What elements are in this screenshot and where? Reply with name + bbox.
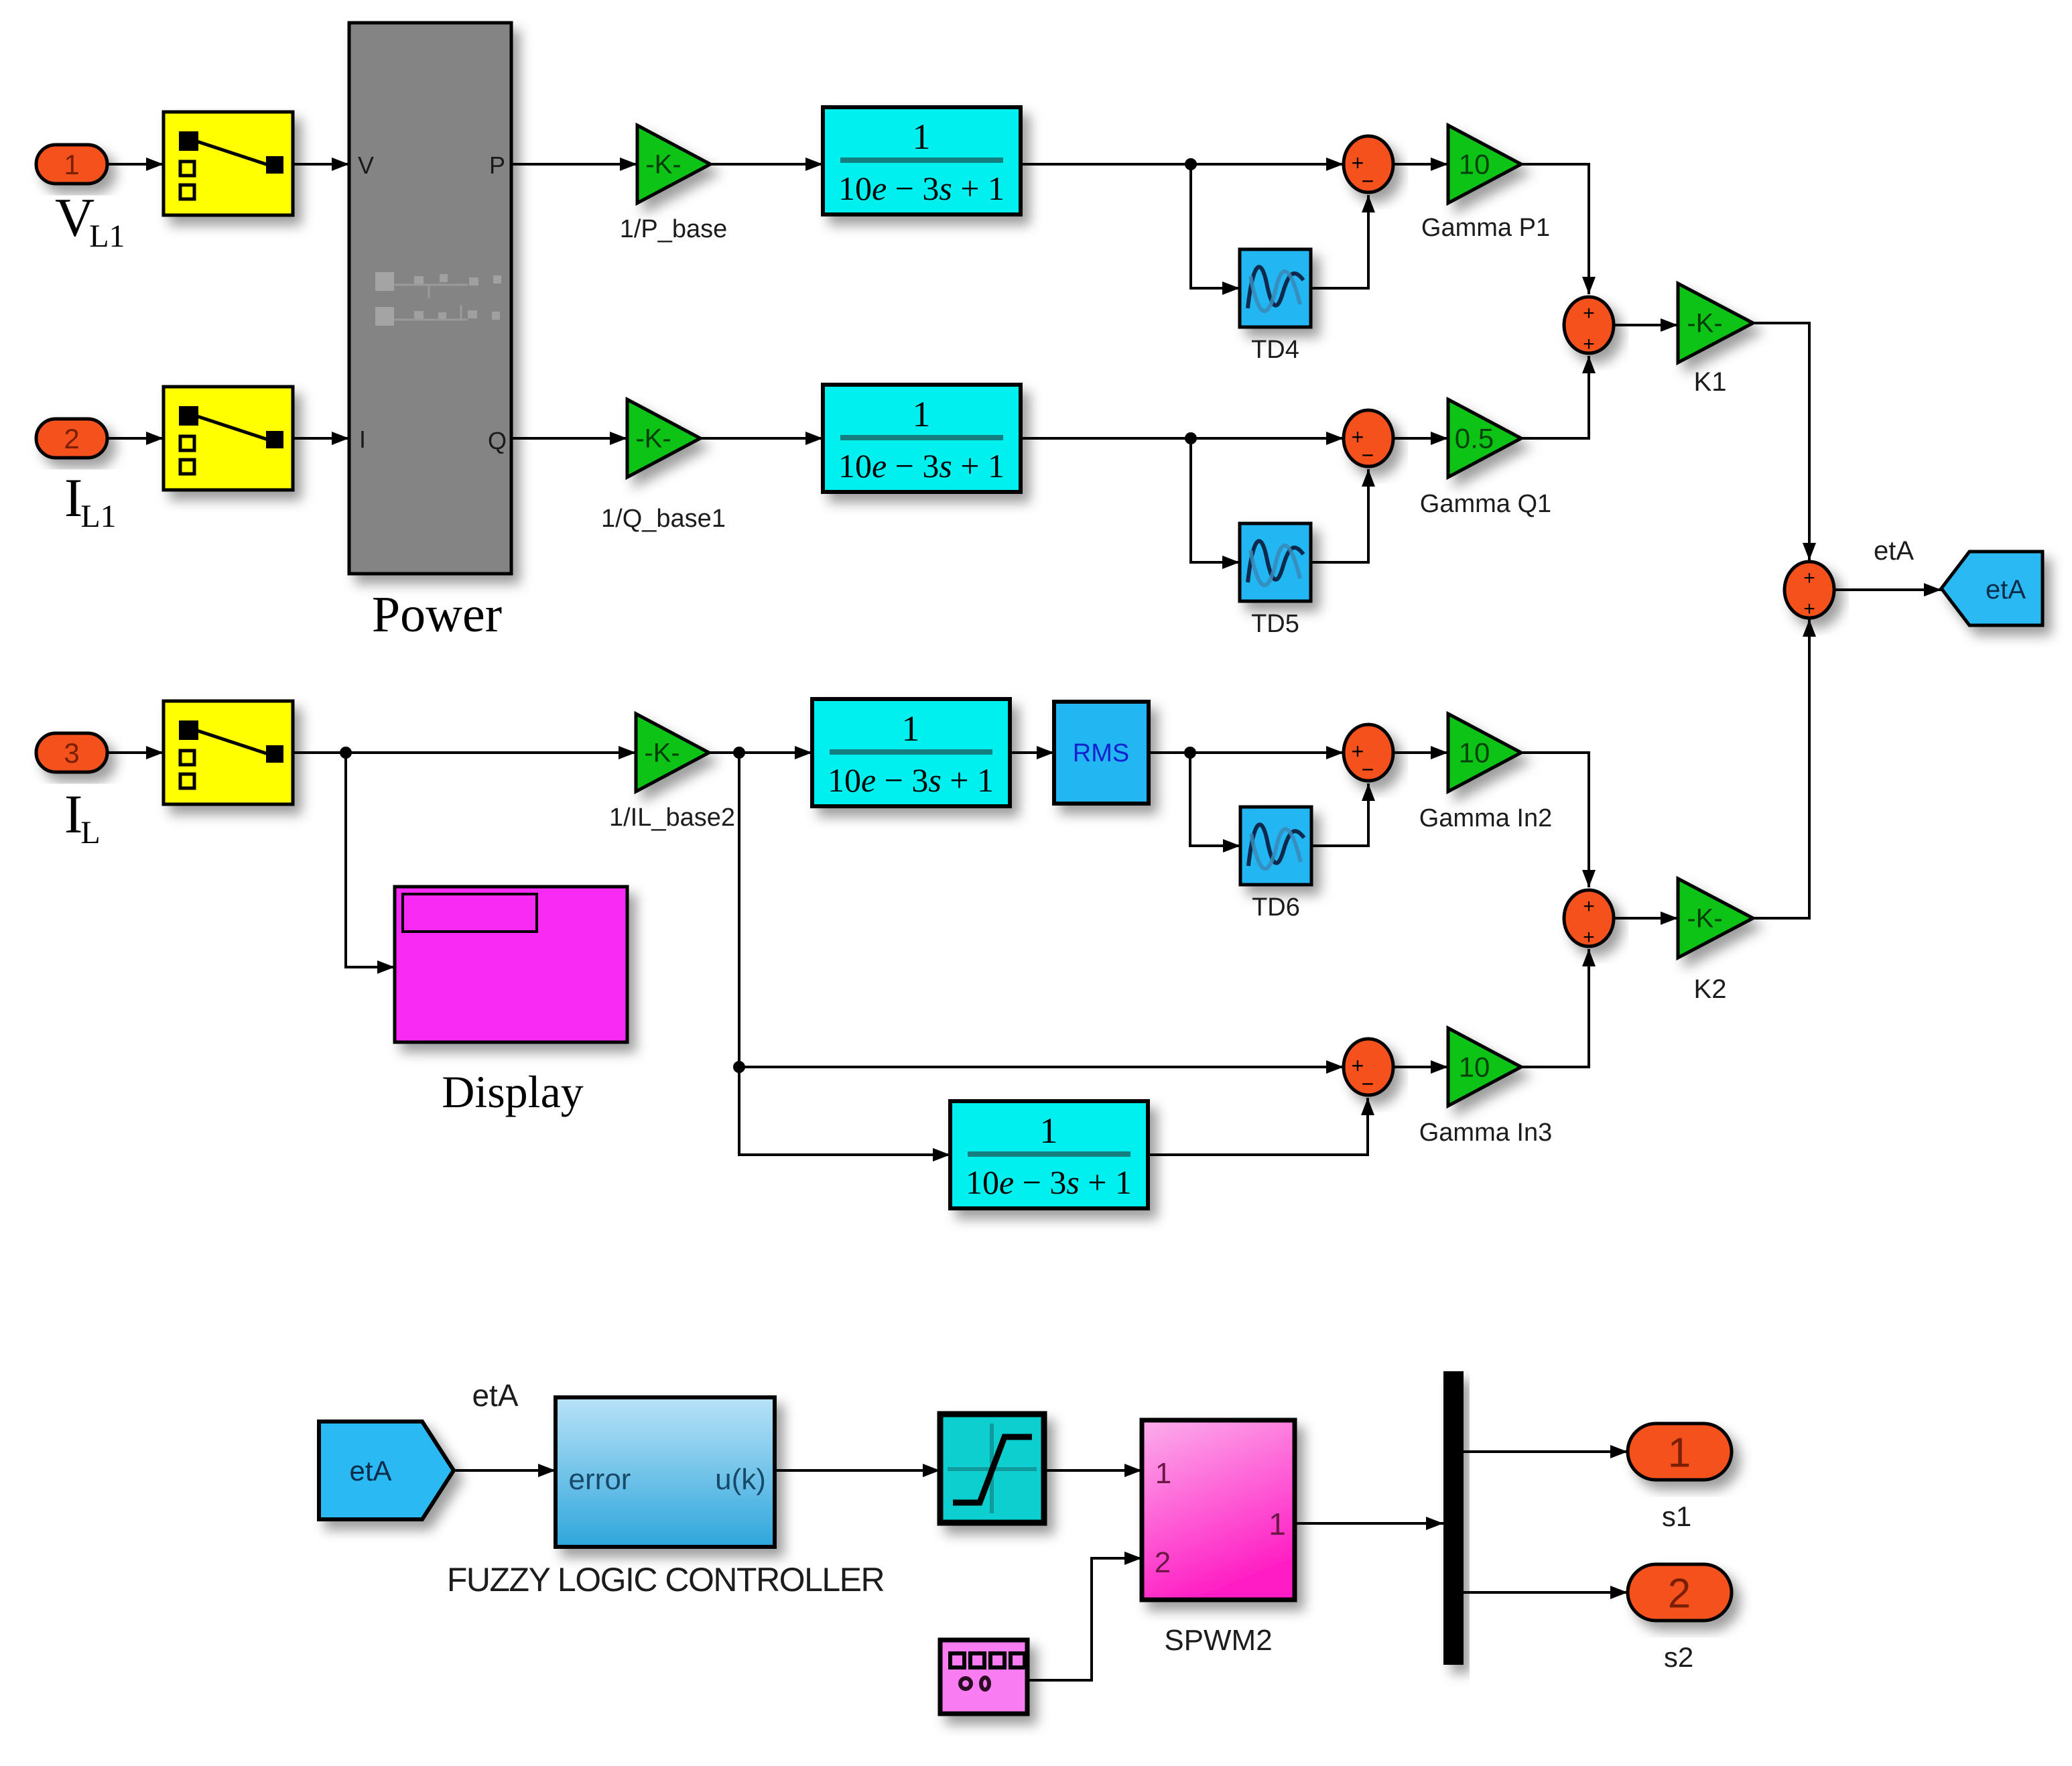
svg-text:10e − 3s + 1: 10e − 3s + 1: [838, 447, 1005, 485]
svg-text:0.5: 0.5: [1455, 422, 1494, 454]
svg-text:1: 1: [64, 149, 79, 180]
svg-text:+: +: [1583, 895, 1595, 918]
svg-text:−: −: [1362, 1072, 1374, 1096]
svg-text:-K-: -K-: [645, 150, 681, 180]
svg-text:10e − 3s + 1: 10e − 3s + 1: [828, 761, 994, 799]
svg-text:-K-: -K-: [1687, 309, 1722, 338]
svg-text:VL1: VL1: [55, 187, 125, 254]
svg-text:1: 1: [913, 394, 931, 434]
svg-text:2: 2: [64, 423, 79, 454]
svg-text:error: error: [569, 1463, 631, 1496]
svg-text:u(k): u(k): [715, 1463, 766, 1496]
svg-text:10: 10: [1459, 1051, 1490, 1082]
svg-text:-K-: -K-: [635, 424, 671, 454]
svg-text:FUZZY LOGIC CONTROLLER: FUZZY LOGIC CONTROLLER: [447, 1561, 884, 1598]
svg-text:Gamma In2: Gamma In2: [1419, 804, 1553, 832]
svg-text:10: 10: [1459, 737, 1490, 768]
svg-text:1: 1: [1668, 1430, 1691, 1476]
svg-text:1: 1: [913, 117, 931, 157]
svg-text:TD4: TD4: [1251, 336, 1299, 364]
svg-text:etA: etA: [472, 1378, 518, 1413]
svg-text:Gamma Q1: Gamma Q1: [1420, 490, 1551, 518]
svg-text:IL: IL: [64, 783, 101, 850]
svg-text:s2: s2: [1664, 1641, 1693, 1673]
svg-text:3: 3: [64, 737, 79, 769]
svg-text:10e − 3s + 1: 10e − 3s + 1: [838, 170, 1005, 207]
svg-text:1/P_base: 1/P_base: [620, 215, 728, 243]
svg-text:V: V: [358, 151, 374, 179]
svg-text:RMS: RMS: [1073, 739, 1129, 767]
svg-text:1: 1: [902, 708, 920, 749]
svg-text:etA: etA: [349, 1455, 391, 1487]
svg-text:Gamma P1: Gamma P1: [1421, 214, 1550, 242]
svg-text:+: +: [1583, 302, 1595, 324]
svg-text:10e − 3s + 1: 10e − 3s + 1: [966, 1163, 1132, 1201]
svg-text:TD5: TD5: [1251, 610, 1299, 638]
svg-text:−: −: [1362, 757, 1374, 781]
svg-text:I: I: [359, 426, 366, 453]
svg-text:1/Q_base1: 1/Q_base1: [601, 505, 726, 533]
svg-text:+: +: [1583, 333, 1595, 355]
svg-text:etA: etA: [1986, 575, 2026, 605]
svg-text:TD6: TD6: [1252, 893, 1300, 922]
svg-text:1: 1: [1269, 1507, 1286, 1541]
svg-text:K1: K1: [1694, 367, 1727, 397]
svg-text:+: +: [1803, 598, 1815, 620]
svg-text:1: 1: [1155, 1457, 1171, 1490]
svg-text:-K-: -K-: [1687, 904, 1722, 934]
svg-text:1: 1: [1040, 1111, 1058, 1151]
svg-text:−: −: [1362, 443, 1374, 467]
svg-text:SPWM2: SPWM2: [1164, 1624, 1272, 1657]
svg-text:Power: Power: [372, 586, 502, 643]
svg-text:1/IL_base2: 1/IL_base2: [609, 804, 735, 832]
svg-text:Q: Q: [488, 427, 507, 454]
svg-text:K2: K2: [1694, 974, 1727, 1004]
svg-text:P: P: [489, 151, 505, 179]
svg-text:10: 10: [1459, 148, 1490, 180]
svg-text:-K-: -K-: [644, 739, 679, 768]
svg-text:−: −: [1362, 169, 1374, 193]
svg-text:Display: Display: [442, 1066, 584, 1117]
svg-text:Gamma In3: Gamma In3: [1419, 1119, 1553, 1147]
svg-text:IL1: IL1: [64, 467, 117, 534]
svg-text:+: +: [1583, 926, 1595, 948]
svg-text:+: +: [1803, 567, 1815, 589]
svg-text:s1: s1: [1662, 1501, 1691, 1532]
svg-text:2: 2: [1668, 1570, 1691, 1617]
svg-text:2: 2: [1155, 1546, 1171, 1579]
svg-text:etA: etA: [1874, 536, 1914, 566]
